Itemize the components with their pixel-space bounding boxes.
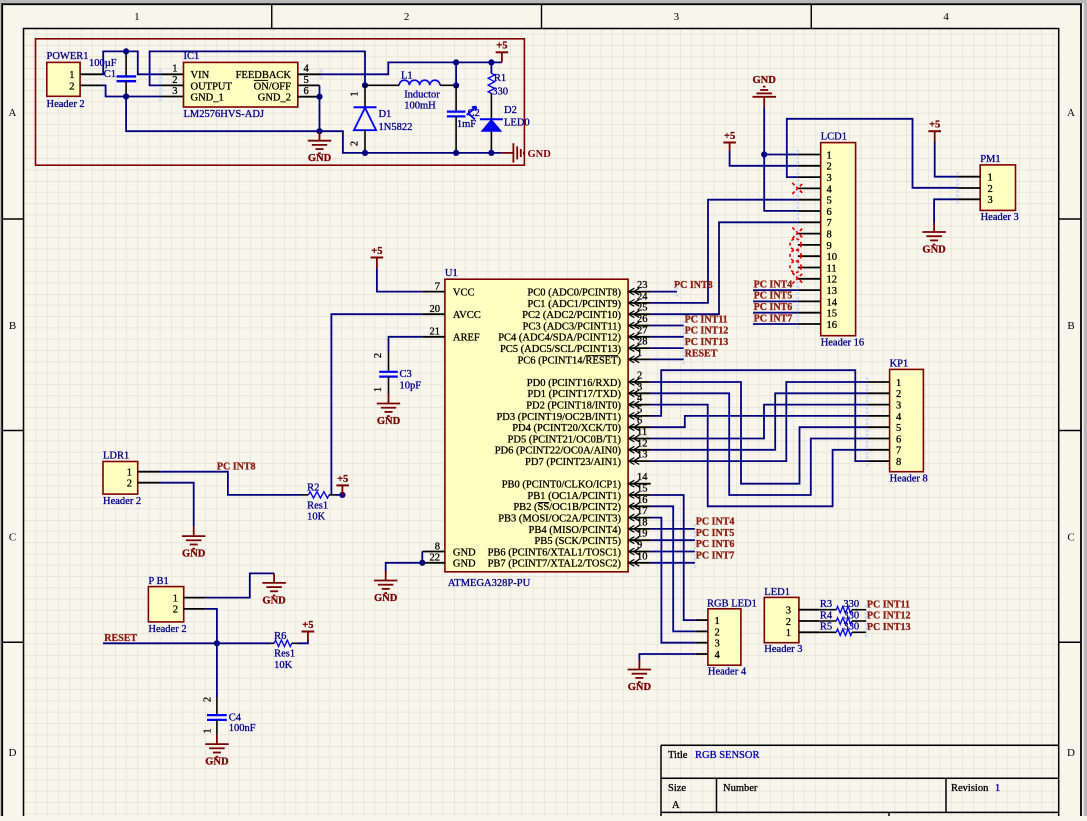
svg-text:1: 1 bbox=[786, 628, 791, 639]
svg-text:10K: 10K bbox=[274, 660, 293, 671]
svg-text:1: 1 bbox=[350, 92, 361, 97]
connector KP1 Header 8 bbox=[890, 358, 928, 484]
resistor R3 330 bbox=[819, 599, 866, 613]
svg-text:PC INT6: PC INT6 bbox=[754, 302, 793, 313]
junction dot RESET C4 bbox=[214, 640, 220, 646]
wire PB3 to RGB LED1 pin3 bbox=[651, 518, 696, 643]
svg-text:PC INT11: PC INT11 bbox=[685, 314, 728, 325]
svg-text:PB6 (PCINT6/XTAL1/TOSC1): PB6 (PCINT6/XTAL1/TOSC1) bbox=[488, 547, 622, 558]
svg-text:28: 28 bbox=[637, 337, 648, 348]
wire RESET to C4 bbox=[216, 643, 218, 697]
svg-text:LED0: LED0 bbox=[504, 117, 530, 128]
svg-text:14: 14 bbox=[637, 472, 648, 483]
PM1 pin stubs bbox=[956, 172, 980, 205]
wire +5 to PM1 pin1 bbox=[934, 131, 936, 142]
resistor R6 Res1 10K bbox=[270, 631, 298, 671]
svg-text:Header 16: Header 16 bbox=[821, 337, 864, 348]
wire PB4 bbox=[651, 528, 695, 530]
capacitor C1 100uF bbox=[89, 51, 136, 96]
svg-text:C4: C4 bbox=[229, 712, 242, 723]
svg-text:C: C bbox=[1067, 532, 1074, 544]
wire PD3 to KP1 pin8 bbox=[651, 370, 867, 461]
svg-text:1: 1 bbox=[203, 729, 214, 734]
svg-text:B: B bbox=[1067, 320, 1074, 332]
svg-text:R6: R6 bbox=[274, 631, 286, 642]
svg-text:LCD1: LCD1 bbox=[821, 132, 847, 143]
title block bbox=[661, 745, 1059, 816]
svg-text:C1: C1 bbox=[104, 69, 116, 80]
svg-text:1mF: 1mF bbox=[457, 119, 476, 130]
net label PC INT4 at PB4 bbox=[696, 517, 735, 528]
svg-text:LM2576HVS-ADJ: LM2576HVS-ADJ bbox=[184, 109, 265, 120]
svg-text:4: 4 bbox=[715, 650, 721, 661]
svg-text:P B1: P B1 bbox=[148, 576, 168, 587]
wire LCD pin7 to U1 PC2 bbox=[651, 222, 798, 314]
net label PC INT6 at LCD bbox=[754, 302, 793, 313]
svg-text:GND_1: GND_1 bbox=[191, 93, 224, 104]
wire ON/OFF to GND_2 bbox=[319, 85, 321, 96]
svg-text:4: 4 bbox=[827, 184, 833, 195]
svg-text:9: 9 bbox=[637, 540, 642, 551]
svg-text:1: 1 bbox=[637, 348, 642, 359]
svg-text:3: 3 bbox=[674, 11, 680, 23]
svg-text:Res1: Res1 bbox=[307, 500, 328, 511]
ground below C4 bbox=[205, 735, 229, 768]
svg-text:100µF: 100µF bbox=[89, 58, 117, 69]
svg-text:OUTPUT: OUTPUT bbox=[191, 81, 233, 92]
svg-text:GND: GND bbox=[308, 153, 332, 164]
svg-text:16: 16 bbox=[827, 320, 838, 331]
svg-text:KP1: KP1 bbox=[890, 358, 909, 369]
regulator IC1 LM2576HVS-ADJ bbox=[172, 51, 309, 120]
svg-text:2: 2 bbox=[69, 81, 74, 92]
svg-text:Revision: Revision bbox=[951, 783, 989, 794]
svg-text:1: 1 bbox=[827, 150, 832, 161]
wire LDR1 pin2 to GND bbox=[160, 483, 194, 527]
ground at RGB LED1 bbox=[628, 660, 652, 693]
svg-text:PB1 (OC1A/PCINT1): PB1 (OC1A/PCINT1) bbox=[527, 491, 621, 502]
svg-text:PB3 (MOSI/OC2A/PCINT3): PB3 (MOSI/OC2A/PCINT3) bbox=[498, 514, 621, 525]
resistor R2 Res1 10K bbox=[301, 483, 336, 523]
wire PB2 to RGB LED1 pin2 bbox=[651, 506, 696, 631]
svg-text:8: 8 bbox=[896, 457, 901, 468]
wire POWER1.2 to GND_1 bbox=[102, 85, 161, 96]
svg-text:3: 3 bbox=[715, 639, 720, 650]
+5 power at PM1 bbox=[928, 120, 941, 132]
svg-text:Header 2: Header 2 bbox=[103, 496, 141, 507]
wire PD1 to KP1 pin6 bbox=[651, 393, 867, 495]
svg-text:23: 23 bbox=[637, 280, 648, 291]
U1 right pin stubs numbers and chevrons bbox=[628, 280, 651, 566]
svg-text:5: 5 bbox=[896, 423, 901, 434]
svg-text:AVCC: AVCC bbox=[453, 310, 481, 321]
wire stub GND_1 bbox=[161, 96, 184, 98]
svg-text:AREF: AREF bbox=[453, 333, 480, 344]
svg-text:3: 3 bbox=[827, 173, 832, 184]
svg-text:1: 1 bbox=[69, 70, 74, 81]
LDR1 pin stubs bbox=[138, 472, 160, 483]
svg-text:PC6 (PCINT14/RESET): PC6 (PCINT14/RESET) bbox=[517, 355, 621, 366]
endpoint marks IC1 bbox=[159, 69, 323, 101]
svg-text:PC INT11: PC INT11 bbox=[867, 599, 910, 610]
svg-text:PD2 (PCINT18/INT0): PD2 (PCINT18/INT0) bbox=[526, 401, 621, 412]
svg-text:PB5 (SCK/PCINT5): PB5 (SCK/PCINT5) bbox=[534, 536, 621, 547]
svg-text:4: 4 bbox=[943, 11, 949, 23]
svg-text:IC1: IC1 bbox=[184, 51, 200, 62]
svg-text:5: 5 bbox=[637, 404, 642, 415]
svg-text:Header 8: Header 8 bbox=[890, 473, 928, 484]
svg-text:22: 22 bbox=[430, 553, 441, 564]
wire PD6 to KP1 pin2 bbox=[651, 393, 867, 450]
junction dot R1 top bbox=[488, 59, 494, 65]
svg-text:12: 12 bbox=[637, 438, 648, 449]
no connect marks LCD bbox=[790, 183, 803, 284]
capacitor C4 100nF bbox=[203, 697, 256, 735]
svg-text:RESET: RESET bbox=[104, 633, 137, 644]
wire PB7 bbox=[651, 562, 695, 564]
wire OUTPUT to switch node bbox=[150, 51, 365, 85]
svg-text:4: 4 bbox=[637, 393, 643, 404]
wire U1 GND pins bbox=[421, 552, 423, 563]
wire LCD pin14 bbox=[753, 300, 798, 302]
svg-text:GND: GND bbox=[374, 593, 398, 604]
wire LCD pin13 bbox=[753, 289, 798, 291]
svg-text:13: 13 bbox=[827, 286, 838, 297]
svg-text:1: 1 bbox=[988, 173, 993, 184]
PB1 pin stubs bbox=[184, 598, 206, 609]
svg-text:Number: Number bbox=[723, 783, 758, 794]
svg-text:PC INT8: PC INT8 bbox=[674, 280, 713, 291]
junction dot D1 bottom bbox=[362, 150, 368, 156]
svg-text:A: A bbox=[672, 800, 680, 811]
resistor R1 330 bbox=[488, 62, 508, 119]
svg-text:18: 18 bbox=[637, 517, 648, 528]
junction dot switch node bbox=[362, 82, 368, 88]
svg-text:ATMEGA328P-PU: ATMEGA328P-PU bbox=[448, 578, 531, 589]
svg-text:R4: R4 bbox=[820, 610, 833, 621]
svg-text:PC INT13: PC INT13 bbox=[685, 337, 729, 348]
svg-text:LDR1: LDR1 bbox=[103, 451, 129, 462]
svg-text:20: 20 bbox=[430, 304, 441, 315]
svg-text:Inductor: Inductor bbox=[404, 89, 440, 100]
svg-text:2: 2 bbox=[896, 389, 901, 400]
svg-text:+5: +5 bbox=[496, 41, 507, 52]
wire POWER1.1 to VIN bbox=[102, 51, 161, 74]
svg-text:24: 24 bbox=[637, 291, 648, 302]
wire R6 to +5 bbox=[298, 640, 308, 643]
svg-text:Header 3: Header 3 bbox=[764, 644, 802, 655]
svg-text:1: 1 bbox=[172, 64, 177, 75]
connector RGB LED1 Header 4 bbox=[707, 599, 757, 678]
svg-text:GND: GND bbox=[922, 245, 946, 256]
+5 power at R2 bbox=[336, 474, 349, 486]
svg-text:11: 11 bbox=[827, 263, 837, 274]
wire VCC to +5 bbox=[376, 258, 378, 269]
ground above LCD1 bbox=[753, 75, 777, 108]
net label PC INT13 at PC5 bbox=[685, 337, 729, 348]
svg-text:1: 1 bbox=[127, 468, 132, 479]
svg-text:RESET: RESET bbox=[685, 348, 718, 359]
net label PC INT6 at PB6 bbox=[696, 539, 735, 550]
+5 power at R1 bbox=[496, 41, 509, 53]
svg-text:6: 6 bbox=[637, 416, 642, 427]
connector PM1 Header 3 bbox=[980, 154, 1019, 223]
wire output node vertical bbox=[455, 62, 457, 85]
KP1 pin stubs bbox=[866, 377, 890, 466]
svg-text:PC INT7: PC INT7 bbox=[696, 551, 735, 562]
svg-text:6: 6 bbox=[304, 86, 309, 97]
svg-text:PC INT4: PC INT4 bbox=[696, 517, 735, 528]
svg-text:2: 2 bbox=[373, 353, 384, 358]
svg-text:3: 3 bbox=[988, 195, 993, 206]
svg-text:C3: C3 bbox=[400, 369, 412, 380]
svg-text:10K: 10K bbox=[307, 512, 326, 523]
svg-text:Size: Size bbox=[668, 783, 686, 794]
svg-text:GND: GND bbox=[528, 149, 552, 160]
resistor R4 330 bbox=[819, 610, 866, 624]
svg-text:PD0 (PCINT16/RXD): PD0 (PCINT16/RXD) bbox=[527, 378, 622, 389]
svg-text:GND_2: GND_2 bbox=[258, 93, 291, 104]
svg-text:3: 3 bbox=[172, 86, 177, 97]
svg-text:2: 2 bbox=[715, 627, 720, 638]
svg-text:PD4 (PCINT20/XCK/T0): PD4 (PCINT20/XCK/T0) bbox=[512, 423, 621, 434]
svg-text:13: 13 bbox=[637, 450, 648, 461]
svg-text:1: 1 bbox=[896, 378, 901, 389]
svg-text:16: 16 bbox=[637, 495, 648, 506]
svg-text:2: 2 bbox=[350, 141, 361, 146]
svg-text:R5: R5 bbox=[820, 622, 832, 633]
inductor L1 100mH bbox=[365, 70, 456, 111]
svg-text:PC INT5: PC INT5 bbox=[696, 528, 735, 539]
wire LCD pin15 bbox=[753, 312, 798, 314]
ground below U1 bbox=[374, 571, 398, 604]
junction dot D2 bottom bbox=[488, 150, 494, 156]
svg-text:19: 19 bbox=[637, 529, 648, 540]
svg-text:PB0 (PCINT0/CLKO/ICP1): PB0 (PCINT0/CLKO/ICP1) bbox=[502, 480, 622, 491]
svg-text:PC INT4: PC INT4 bbox=[754, 279, 793, 290]
junction dot pin6 bbox=[316, 94, 322, 100]
wire R2 to +5 node bbox=[336, 494, 342, 496]
net label RESET at PC6 bbox=[685, 348, 718, 359]
wire PB6 bbox=[651, 551, 695, 553]
svg-text:PM1: PM1 bbox=[980, 154, 1000, 165]
svg-text:1: 1 bbox=[373, 387, 384, 392]
svg-text:C: C bbox=[9, 532, 16, 544]
svg-text:+5: +5 bbox=[302, 620, 313, 631]
wire PD4 to KP1 pin4 bbox=[651, 416, 867, 427]
svg-text:8: 8 bbox=[827, 230, 832, 241]
wire GND pins to ground bbox=[386, 563, 423, 571]
connector PB1 Header 2 bbox=[148, 576, 186, 635]
svg-text:+5: +5 bbox=[724, 131, 735, 142]
wire PB5 bbox=[651, 539, 695, 541]
wire LDR1 pin1 to R2 bbox=[160, 472, 301, 495]
svg-text:LED1: LED1 bbox=[764, 587, 790, 598]
power section outline box bbox=[36, 39, 525, 165]
junction dot rail bbox=[316, 128, 322, 134]
svg-text:11: 11 bbox=[637, 427, 647, 438]
LCD1 pin stubs bbox=[796, 150, 820, 330]
svg-text:6: 6 bbox=[896, 434, 901, 445]
+5 power bbox=[371, 246, 384, 258]
svg-text:PC INT5: PC INT5 bbox=[754, 291, 793, 302]
wire branch to LCD pin1 bbox=[764, 154, 798, 156]
LED D2 LED0 bbox=[480, 105, 530, 153]
microcontroller U1 ATMEGA328P-PU bbox=[445, 268, 628, 589]
resistor R5 330 bbox=[819, 622, 866, 636]
wire FEEDBACK to output node bbox=[321, 62, 502, 74]
svg-text:R1: R1 bbox=[494, 73, 506, 84]
ground right rotated bbox=[502, 143, 552, 162]
svg-text:Header 2: Header 2 bbox=[148, 624, 186, 635]
wire PD0 to KP1 pin5 bbox=[651, 382, 867, 484]
svg-text:PC INT6: PC INT6 bbox=[696, 539, 735, 550]
wire RESET net bbox=[103, 642, 270, 644]
svg-text:PC2 (ADC2/PCINT10): PC2 (ADC2/PCINT10) bbox=[522, 310, 621, 321]
wire LCD pin3 to PM1 pin2 bbox=[787, 119, 958, 188]
svg-text:1: 1 bbox=[715, 616, 720, 627]
net label PC INT12 at R4 bbox=[867, 611, 911, 622]
POWER1 pin stubs bbox=[80, 74, 102, 85]
svg-text:1: 1 bbox=[134, 11, 140, 23]
svg-text:+5: +5 bbox=[929, 120, 940, 131]
wire PC6 bbox=[651, 358, 684, 360]
wire PC4 bbox=[651, 336, 684, 338]
wire PC3 bbox=[651, 325, 684, 327]
wire PB1 pin1 to GND bbox=[206, 573, 274, 597]
svg-text:2: 2 bbox=[172, 75, 177, 86]
svg-text:PC INT13: PC INT13 bbox=[867, 622, 911, 633]
net label PC INT7 at PB7 bbox=[696, 551, 735, 562]
net label RESET bbox=[104, 633, 137, 644]
svg-text:15: 15 bbox=[827, 309, 838, 320]
svg-text:5: 5 bbox=[827, 196, 832, 207]
svg-text:Header 3: Header 3 bbox=[981, 212, 1019, 223]
svg-text:PC INT12: PC INT12 bbox=[867, 611, 911, 622]
svg-text:6: 6 bbox=[827, 207, 832, 218]
svg-text:L1: L1 bbox=[401, 70, 413, 81]
svg-text:21: 21 bbox=[430, 327, 441, 338]
net label PC INT8 at PC0 bbox=[674, 280, 713, 291]
svg-text:GND: GND bbox=[453, 547, 476, 558]
svg-text:PD3 (PCINT19/OC2B/INT1): PD3 (PCINT19/OC2B/INT1) bbox=[496, 412, 621, 423]
svg-text:PC INT12: PC INT12 bbox=[685, 326, 729, 337]
svg-text:2: 2 bbox=[988, 184, 993, 195]
svg-text:1N5822: 1N5822 bbox=[379, 122, 413, 133]
ground at PB1 bbox=[262, 573, 286, 606]
svg-text:D1: D1 bbox=[379, 109, 392, 120]
svg-text:27: 27 bbox=[637, 325, 648, 336]
junction dot R2 node bbox=[339, 492, 345, 498]
connector LED1 Header 3 bbox=[764, 587, 802, 655]
svg-text:2: 2 bbox=[127, 479, 132, 490]
junction dot C1 top bbox=[123, 48, 129, 54]
svg-text:GND: GND bbox=[453, 559, 476, 570]
wire stub VIN bbox=[161, 73, 184, 75]
svg-text:PD5 (PCINT21/OC0B/T1): PD5 (PCINT21/OC0B/T1) bbox=[508, 434, 622, 445]
svg-text:5: 5 bbox=[304, 75, 309, 86]
svg-text:POWER1: POWER1 bbox=[47, 51, 89, 62]
wire LCD pin16 bbox=[753, 323, 798, 325]
net label PC INT5 at PB5 bbox=[696, 528, 735, 539]
wire PB1 to RGB LED1 pin1 bbox=[651, 495, 696, 620]
svg-text:Res1: Res1 bbox=[274, 649, 295, 660]
svg-text:3: 3 bbox=[786, 606, 791, 617]
svg-text:B: B bbox=[9, 320, 16, 332]
capacitor C3 10pF bbox=[373, 352, 421, 395]
connector LCD1 Header 16 bbox=[821, 132, 864, 349]
wire PM1 pin3 to GND bbox=[934, 199, 958, 222]
svg-text:GND: GND bbox=[628, 682, 652, 693]
wire LCD pin5 to U1 PC1 bbox=[651, 200, 798, 303]
wire +5 stub R2 bbox=[341, 485, 343, 495]
svg-text:2: 2 bbox=[827, 162, 832, 173]
svg-text:3: 3 bbox=[637, 382, 642, 393]
wire GND down to LCD pins 1 and 6 bbox=[764, 107, 798, 211]
ground below PM1 bbox=[922, 223, 946, 256]
+5 power at LCD bbox=[723, 131, 736, 143]
wire PD7 to KP1 pin1 bbox=[651, 382, 867, 461]
svg-text:330: 330 bbox=[492, 87, 508, 98]
svg-text:PB7 (PCINT7/XTAL2/TOSC2): PB7 (PCINT7/XTAL2/TOSC2) bbox=[488, 559, 622, 570]
svg-text:FEEDBACK: FEEDBACK bbox=[236, 70, 292, 81]
svg-text:26: 26 bbox=[637, 314, 648, 325]
net label PC INT11 at PC3 bbox=[685, 314, 728, 325]
wire +5 stub R6 bbox=[307, 632, 309, 642]
wire AVCC down to R2 node bbox=[331, 314, 422, 495]
svg-text:VIN: VIN bbox=[191, 70, 210, 81]
+5 power at R6 bbox=[302, 620, 315, 632]
ground GND at IC1 bbox=[308, 131, 332, 164]
svg-text:GND: GND bbox=[205, 757, 229, 768]
svg-text:Header 4: Header 4 bbox=[708, 667, 747, 678]
svg-text:PD6 (PCINT22/OC0A/AIN0): PD6 (PCINT22/OC0A/AIN0) bbox=[495, 446, 622, 457]
connector POWER1 bbox=[47, 51, 89, 110]
svg-text:PC INT7: PC INT7 bbox=[754, 313, 793, 324]
svg-text:R2: R2 bbox=[307, 483, 319, 494]
ground below LDR1 bbox=[182, 527, 206, 560]
svg-text:U1: U1 bbox=[445, 268, 458, 279]
svg-text:1: 1 bbox=[995, 783, 1000, 794]
junction dot C2 bottom bbox=[453, 150, 459, 156]
svg-text:330: 330 bbox=[843, 610, 859, 621]
svg-text:ON/OFF: ON/OFF bbox=[254, 81, 292, 92]
svg-text:330: 330 bbox=[843, 599, 859, 610]
wire +5 stub bbox=[501, 52, 503, 62]
svg-text:2: 2 bbox=[203, 697, 214, 702]
wire stub OUTPUT bbox=[161, 84, 184, 86]
IC1 right pin stubs bbox=[298, 74, 321, 96]
junction dot GND pins bbox=[419, 560, 425, 566]
svg-text:+5: +5 bbox=[371, 246, 382, 257]
U1 left pin stubs and numbers bbox=[422, 281, 445, 563]
wire PB1 pin2 down to RESET net bbox=[206, 609, 217, 643]
svg-text:2: 2 bbox=[637, 371, 642, 382]
net label PC INT13 at R5 bbox=[867, 622, 911, 633]
svg-text:1: 1 bbox=[173, 594, 178, 605]
svg-text:14: 14 bbox=[827, 297, 838, 308]
junction dot L1 right bbox=[453, 82, 459, 88]
svg-text:D2: D2 bbox=[504, 105, 517, 116]
svg-text:D: D bbox=[9, 747, 17, 759]
wire +5 to LCD pin2 bbox=[729, 143, 731, 152]
wire PC0 bbox=[651, 291, 677, 293]
svg-text:100mH: 100mH bbox=[404, 100, 436, 111]
svg-text:A: A bbox=[9, 107, 17, 119]
svg-text:7: 7 bbox=[827, 218, 832, 229]
svg-text:2: 2 bbox=[404, 11, 410, 23]
RGB LED1 pin stubs bbox=[696, 620, 708, 654]
